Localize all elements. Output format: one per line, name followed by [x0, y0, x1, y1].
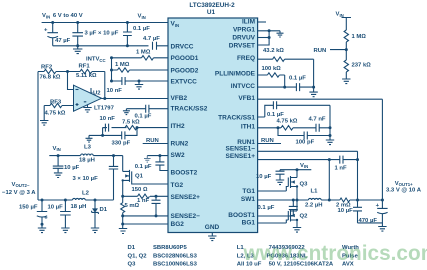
wire 10uF bottom tie	[358, 222, 383, 224]
svg-text:FREQ: FREQ	[237, 55, 255, 62]
svg-text:2.2 µH: 2.2 µH	[305, 203, 322, 209]
wire VFB1 to VOUT1 rail	[258, 99, 383, 200]
resistor 2 mohm sense ch1	[340, 198, 383, 202]
svg-text:5.11 kΩ: 5.11 kΩ	[76, 73, 97, 79]
svg-text:1 MΩ: 1 MΩ	[115, 62, 130, 68]
svg-text:+: +	[44, 28, 48, 34]
svg-text:www.cntronics.com: www.cntronics.com	[243, 242, 427, 265]
wire ITH1 gnd vertical	[329, 105, 331, 139]
svg-text:RF1: RF1	[79, 63, 91, 69]
svg-text:INTVCC: INTVCC	[86, 57, 106, 63]
svg-text:BOOST1: BOOST1	[228, 212, 255, 219]
svg-text:−12 V @ 3 A: −12 V @ 3 A	[2, 190, 36, 196]
ground D1	[91, 228, 99, 233]
wire RUN2 stub	[143, 143, 168, 145]
wire ITH2 row	[103, 127, 168, 129]
svg-text:RF2: RF2	[41, 64, 53, 70]
svg-text:10 nF: 10 nF	[107, 88, 123, 94]
wire Q2 source to gnd	[296, 220, 298, 227]
svg-text:4.7 µF: 4.7 µF	[143, 36, 160, 42]
svg-text:Q1: Q1	[135, 173, 144, 179]
wire INTVCC row	[258, 83, 314, 91]
wire PGOOD2 row	[112, 69, 169, 71]
ground ITH1	[326, 140, 334, 145]
capacitor 0.1uF TRACK/SS1	[258, 101, 330, 117]
svg-text:76.8 kΩ: 76.8 kΩ	[40, 75, 61, 81]
svg-text:Q3: Q3	[128, 261, 137, 267]
svg-text:TG2: TG2	[171, 182, 184, 189]
resistor 150 ohm SENSE2+	[138, 194, 150, 198]
svg-text:0.1 µF: 0.1 µF	[258, 205, 275, 211]
svg-text:BSC028N06LS3: BSC028N06LS3	[153, 253, 198, 259]
svg-text:0.1 µF: 0.1 µF	[133, 26, 150, 32]
ground small SW2 net	[144, 156, 151, 163]
ground GND pin	[208, 233, 216, 241]
resistor 1M PGOOD2	[118, 68, 130, 72]
svg-text:VIN: VIN	[336, 12, 344, 18]
svg-text:Q2: Q2	[300, 213, 309, 219]
wire ITH1 row	[258, 127, 330, 129]
svg-text:SENSE1−: SENSE1−	[226, 146, 256, 153]
svg-text:150 Ω: 150 Ω	[132, 187, 148, 193]
svg-text:PLLIN/MODE: PLLIN/MODE	[215, 70, 256, 77]
node L1 sense junction	[328, 199, 331, 202]
wire SENSE1+ down	[328, 160, 330, 200]
wire VIN bar ch1	[280, 169, 311, 171]
capacitor 1nF sense ch2	[152, 196, 161, 216]
wire inverting input	[68, 72, 74, 90]
wire Q1 source to sense	[122, 180, 124, 196]
svg-text:D1: D1	[100, 207, 108, 213]
svg-text:+: +	[44, 216, 48, 222]
svg-text:BSC100N06LS3: BSC100N06LS3	[153, 261, 198, 267]
ground 150uF	[38, 228, 46, 233]
wire op-amp V+ stub	[90, 88, 92, 93]
svg-text:+: +	[376, 203, 380, 209]
svg-text:237 kΩ: 237 kΩ	[352, 62, 372, 68]
wire SENSE1+ row	[258, 159, 330, 161]
svg-text:10 µF: 10 µF	[338, 208, 354, 214]
svg-text:DRVCC: DRVCC	[171, 43, 194, 50]
svg-text:BG1: BG1	[242, 220, 256, 227]
wire BG1 gate lead	[258, 220, 289, 223]
wire RUN1 stub	[258, 143, 281, 145]
svg-text:47 µF: 47 µF	[55, 38, 71, 44]
capacitor 100pF ITH1	[278, 128, 330, 140]
svg-text:RUN: RUN	[146, 138, 159, 144]
svg-text:Q1, Q2: Q1, Q2	[128, 253, 148, 259]
svg-text:0.1 µF: 0.1 µF	[289, 76, 306, 82]
svg-text:U1: U1	[207, 9, 216, 16]
resistor 100k PLLIN/MODE	[258, 73, 285, 87]
ground RF3	[40, 106, 48, 126]
svg-text:VFB2: VFB2	[171, 95, 188, 102]
svg-text:4.75 kΩ: 4.75 kΩ	[45, 111, 66, 117]
wire input ground rail	[53, 45, 149, 47]
transistor Q3	[288, 170, 297, 188]
wire FREQ down	[313, 59, 315, 87]
resistor 1M RUN divider	[344, 30, 348, 50]
svg-text:VOUT1+: VOUT1+	[395, 181, 413, 187]
capacitor 0.1uF BOOST2	[158, 154, 161, 157]
capacitor 1nF sense ch1	[329, 156, 357, 164]
node junction dots on VIN rail	[51, 21, 54, 24]
capacitor 4.7nF ITH1	[316, 124, 319, 132]
ground RUN divider	[342, 79, 350, 84]
svg-text:PGOOD2: PGOOD2	[171, 67, 199, 74]
svg-text:RUN: RUN	[261, 138, 274, 144]
capacitor 47uF electrolytic input	[47, 23, 58, 46]
svg-text:VIN: VIN	[53, 146, 61, 152]
capacitor 0.1uF BOOST1	[258, 200, 298, 216]
resistor RF2 76.8k	[38, 69, 68, 73]
svg-text:VIN 6 V to 40 V: VIN 6 V to 40 V	[42, 13, 83, 19]
svg-text:DRVUV: DRVUV	[232, 35, 255, 42]
wire RUN tap	[330, 49, 346, 51]
svg-text:3.3 V @ 10 A: 3.3 V @ 10 A	[386, 188, 422, 194]
svg-text:L2: L2	[82, 190, 90, 196]
wire SENSE1- row	[258, 151, 358, 200]
ground TRACK/SS2 cap	[123, 109, 130, 115]
svg-text:D1: D1	[128, 245, 136, 251]
diode D1 schottky	[94, 200, 96, 209]
wire Q3 source to SW	[296, 187, 298, 201]
svg-text:TRACK/SS2: TRACK/SS2	[171, 106, 208, 113]
resistor 237k RUN divider	[344, 50, 348, 79]
wire BG2 row	[123, 224, 168, 228]
svg-text:ILIM: ILIM	[242, 18, 255, 25]
svg-text:1 MΩ: 1 MΩ	[136, 50, 151, 56]
svg-text:18 µH: 18 µH	[79, 157, 95, 163]
wire PGOOD1 row	[112, 57, 169, 59]
svg-text:4.75 kΩ: 4.75 kΩ	[277, 118, 298, 124]
svg-text:RUN: RUN	[314, 48, 327, 54]
wire SW1 row	[258, 199, 297, 201]
ground 10uF VIN ch2	[54, 173, 62, 178]
resistor RF1 5.11k	[68, 69, 105, 73]
ground EXTVCC	[138, 80, 141, 83]
capacitor 0.1uF VIN bypass	[123, 23, 132, 46]
resistor 7.5k ITH2	[125, 125, 137, 129]
svg-text:VIN: VIN	[300, 163, 308, 169]
svg-text:10 µF: 10 µF	[256, 174, 272, 180]
svg-text:1 nF: 1 nF	[137, 198, 150, 204]
capacitor 150uF electrolytic VOUT2	[37, 200, 47, 228]
svg-text:3 µF × 10 µF: 3 µF × 10 µF	[85, 31, 119, 37]
capacitor 4.7uF DRVCC	[153, 42, 169, 50]
ground op-amp V-	[83, 102, 91, 112]
ground 10uF ch1	[276, 180, 284, 185]
capacitor 3uF x 10uF input	[72, 23, 83, 46]
inductor L3 18uH	[81, 154, 94, 156]
resistor 5 mohm sense ch2	[121, 196, 125, 216]
resistor 1M PGOOD1	[142, 56, 154, 60]
op-amp U2 LT1797	[74, 85, 102, 111]
svg-text:SW1: SW1	[241, 196, 255, 203]
svg-text:4.7 nF: 4.7 nF	[309, 116, 326, 122]
wire RF1 feedback to output	[104, 72, 106, 99]
wire SENSE2+ row	[123, 195, 168, 197]
svg-text:SENSE2−: SENSE2−	[171, 213, 201, 220]
inductor L1 2.2uH	[297, 198, 340, 200]
ground 10uF VOUT2	[61, 228, 69, 233]
resistor 43.2k FREQ	[258, 57, 314, 61]
wire TG2 gate lead	[132, 180, 168, 184]
capacitor 10uF VOUT2	[60, 200, 71, 228]
svg-text:BG2: BG2	[171, 221, 185, 228]
ground 330pF	[86, 135, 103, 142]
capacitor 330pF ITH2	[103, 128, 137, 140]
svg-text:10 µF: 10 µF	[48, 204, 64, 210]
wire VFB2 row op-amp output	[102, 98, 169, 100]
svg-text:470 µF: 470 µF	[359, 218, 378, 224]
svg-text:PGOOD1: PGOOD1	[171, 55, 199, 62]
svg-text:1 nF: 1 nF	[335, 165, 348, 171]
svg-text:INTVCC: INTVCC	[231, 83, 256, 90]
svg-text:L3: L3	[84, 145, 92, 151]
svg-text:7.5 kΩ: 7.5 kΩ	[122, 119, 140, 125]
svg-text:100 kΩ: 100 kΩ	[262, 66, 282, 72]
svg-text:EXTVCC: EXTVCC	[171, 78, 198, 85]
ground VOUT1 caps	[378, 227, 386, 232]
svg-text:0.1 µF: 0.1 µF	[267, 112, 284, 118]
svg-text:100 pF: 100 pF	[296, 139, 315, 145]
wire TG1 gate lead	[258, 187, 289, 192]
node inverting input junction	[66, 70, 69, 73]
svg-text:SBR8U60P5: SBR8U60P5	[153, 245, 187, 251]
svg-text:10 µF: 10 µF	[64, 165, 80, 171]
capacitor 10uF VIN ch1	[276, 170, 285, 180]
wire SENSE2- row	[123, 216, 168, 224]
svg-text:ITH2: ITH2	[171, 123, 185, 130]
svg-text:1 MΩ: 1 MΩ	[352, 34, 367, 40]
svg-text:150 µF: 150 µF	[19, 204, 38, 210]
node ITH2 junction	[136, 126, 139, 129]
svg-text:RUN2: RUN2	[171, 141, 189, 148]
wire RUN divider top	[342, 18, 352, 31]
ground INTVCC	[309, 87, 317, 97]
ground VPRG1 DRVUV	[277, 31, 284, 37]
resistor RF3 4.75k	[44, 103, 73, 107]
wire VPRG1 row	[258, 30, 280, 32]
capacitor 10uF VOUT1	[353, 200, 362, 223]
svg-text:DRVSET: DRVSET	[229, 43, 255, 50]
wire ILIM stub	[258, 21, 266, 23]
capacitor 0.1uF TRACK/SS2	[126, 105, 168, 113]
svg-text:SW2: SW2	[171, 152, 185, 159]
svg-text:VPRG1: VPRG1	[233, 27, 255, 34]
wire VOUT2 feedback rail	[37, 72, 39, 201]
svg-text:SENSE1+: SENSE1+	[226, 153, 256, 160]
inductor L2 18uH	[73, 198, 86, 200]
svg-text:TRACK/SS1: TRACK/SS1	[218, 114, 255, 121]
wire VOUT2 row	[38, 199, 114, 201]
wire DRVSET tie	[258, 31, 270, 45]
svg-text:3 × 10 µF: 3 × 10 µF	[73, 176, 99, 182]
capacitor 10uF VIN ch2	[53, 156, 64, 173]
capacitor 10nF ITH2	[103, 124, 109, 132]
resistor 4.75k ITH1	[281, 126, 293, 130]
wire VIN top rail	[42, 22, 168, 24]
svg-text:VOUT2−: VOUT2−	[12, 182, 30, 188]
capacitor 470uF electrolytic VOUT1	[377, 200, 387, 226]
svg-text:43.2 kΩ: 43.2 kΩ	[263, 48, 284, 54]
svg-text:ITH1: ITH1	[241, 123, 255, 130]
svg-text:TG1: TG1	[242, 188, 255, 195]
node RUN junction	[345, 48, 348, 51]
svg-text:VIN: VIN	[138, 14, 146, 20]
svg-text:BOOST2: BOOST2	[171, 169, 198, 176]
ground sense chain ch2	[119, 229, 127, 234]
wire INTVCC vertical	[111, 58, 113, 81]
svg-text:SENSE2+: SENSE2+	[171, 194, 201, 201]
svg-text:330 pF: 330 pF	[112, 140, 131, 146]
transistor Q2	[288, 200, 297, 222]
wire DRVUV row	[258, 37, 270, 39]
capacitor 3 x 10uF flying	[109, 156, 118, 200]
svg-text:VFB1: VFB1	[238, 95, 255, 102]
wire ITH2 gnd corner	[102, 128, 104, 136]
svg-text:10 nF: 10 nF	[100, 116, 116, 122]
svg-text:0.1 µF: 0.1 µF	[135, 164, 152, 170]
svg-text:GND: GND	[205, 224, 220, 231]
op-amp U1 IC body LTC3892EUH-2	[168, 18, 258, 233]
transistor Q1	[123, 156, 132, 182]
svg-text:LTC3892EUH-2: LTC3892EUH-2	[189, 2, 235, 9]
svg-text:Q3: Q3	[300, 181, 309, 187]
svg-text:RF3: RF3	[50, 100, 62, 106]
wire SW2 L3 row	[49, 155, 122, 157]
svg-text:18 µH: 18 µH	[71, 204, 87, 210]
ground input caps	[73, 46, 82, 54]
svg-text:LT1797: LT1797	[94, 105, 115, 111]
svg-text:L1: L1	[311, 189, 319, 195]
capacitor 10nF EXTVCC	[112, 77, 169, 85]
ground Q2 source	[293, 228, 301, 233]
